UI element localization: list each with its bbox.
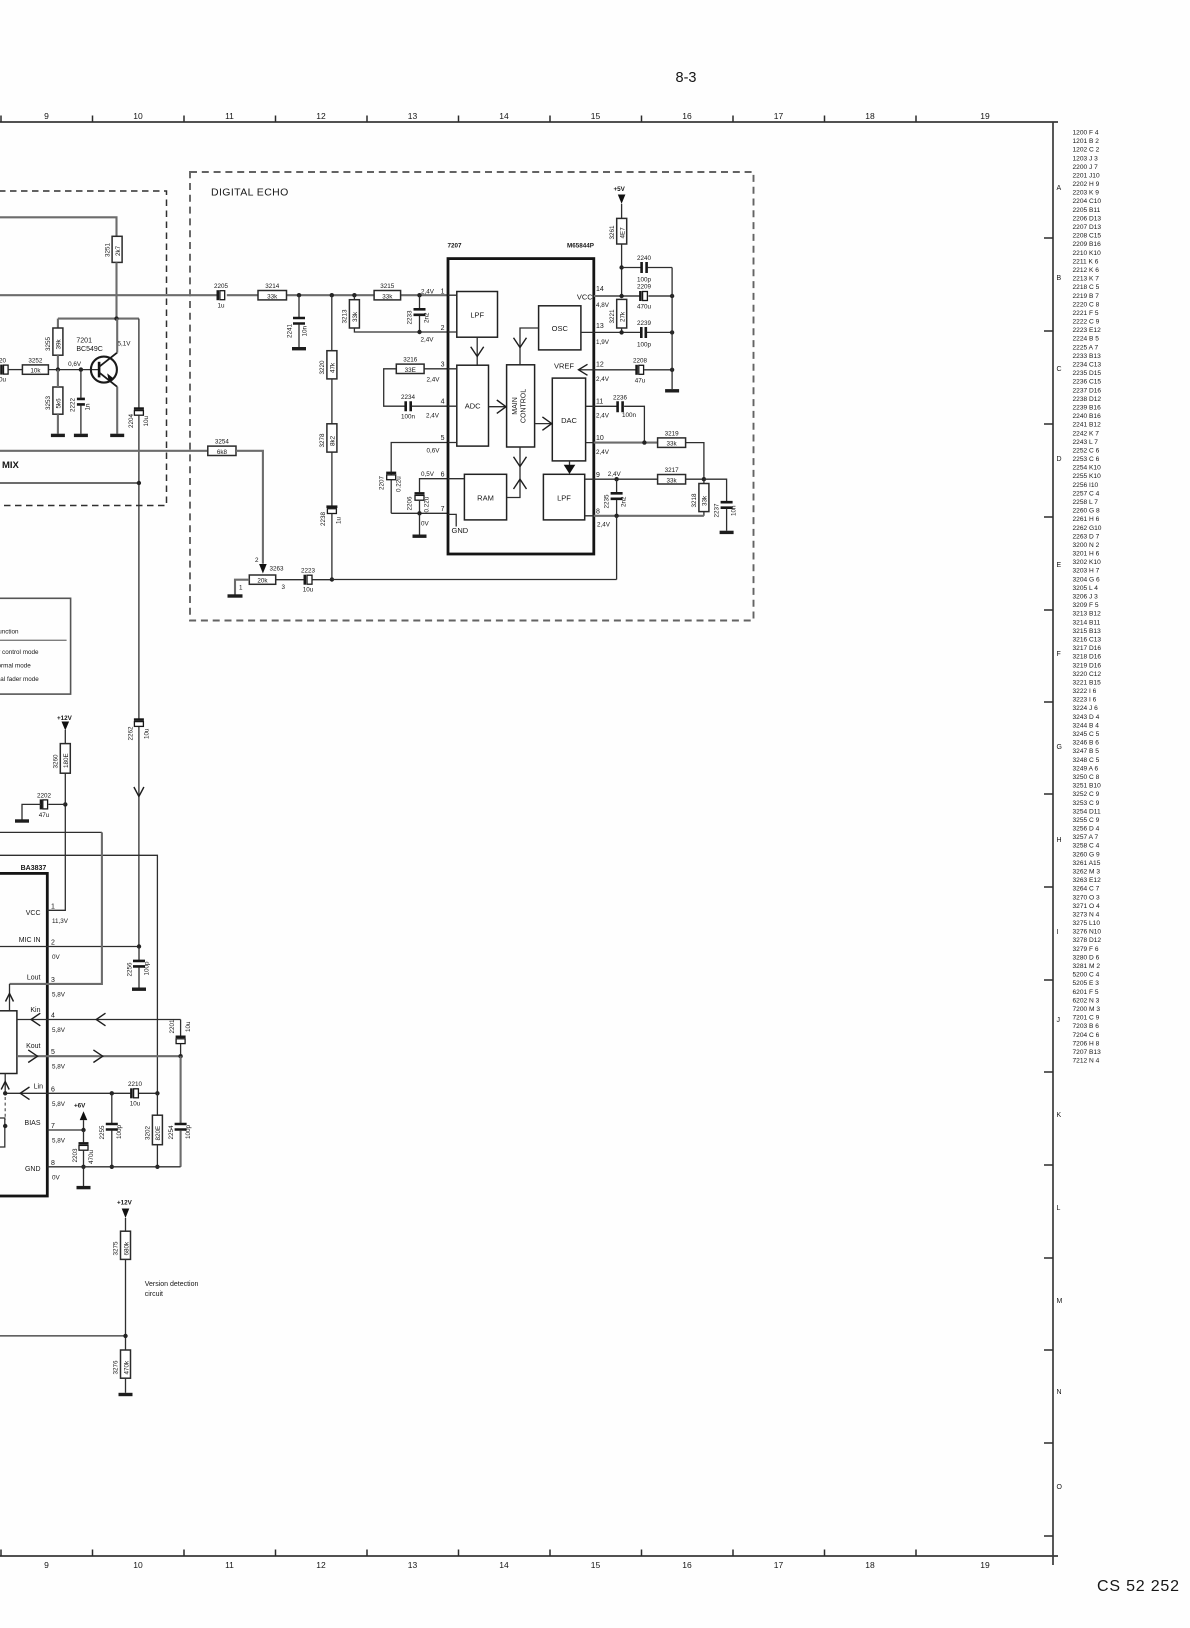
svg-text:OSC: OSC: [552, 324, 569, 333]
svg-text:3244 B 4: 3244 B 4: [1073, 722, 1100, 729]
svg-text:3: 3: [282, 584, 286, 591]
right ruler letters: [1057, 185, 1063, 1491]
svg-text:16: 16: [682, 1560, 692, 1570]
svg-text:1u: 1u: [336, 516, 343, 524]
component location list: [1073, 130, 1102, 1065]
svg-text:2210: 2210: [128, 1081, 143, 1088]
supply +5V: [614, 186, 626, 218]
svg-text:2,4V: 2,4V: [421, 336, 435, 343]
wire 3278 to 2238: [331, 452, 333, 506]
svg-text:+6V: +6V: [74, 1103, 86, 1110]
wire pin12: [594, 369, 672, 371]
svg-text:2234: 2234: [401, 394, 416, 401]
svg-text:9: 9: [44, 111, 49, 121]
resistor 3219 33k: [658, 430, 686, 447]
svg-text:2212 K 6: 2212 K 6: [1073, 267, 1100, 274]
svg-text:100p: 100p: [185, 1124, 192, 1139]
svg-text:Lin: Lin: [34, 1084, 43, 1091]
table mode box: [0, 598, 71, 694]
ground pot: [228, 594, 243, 597]
supply +12V (3260): [57, 715, 73, 731]
svg-text:2209: 2209: [637, 284, 652, 291]
svg-text:3260 G 9: 3260 G 9: [1073, 851, 1100, 858]
top ruler numbers: [44, 111, 990, 121]
svg-text:2k7: 2k7: [115, 245, 122, 256]
wire 3261 to pin14: [621, 244, 623, 296]
wire pin10: [594, 442, 658, 444]
svg-text:100p: 100p: [144, 961, 151, 976]
svg-text:5,8V: 5,8V: [52, 991, 66, 998]
resistor 3220 47k: [319, 351, 337, 379]
node junction 2255 gnd: [110, 1165, 114, 1169]
svg-text:3219 D16: 3219 D16: [1073, 662, 1102, 669]
capacitor 2202 47u: [22, 792, 65, 819]
svg-text:3218: 3218: [691, 493, 698, 508]
op-amp U7200 BA3837 (IC body): [0, 873, 47, 1196]
capacitor 2238 1u: [320, 507, 343, 580]
wire emitter to ground: [116, 387, 118, 434]
svg-text:3213: 3213: [342, 309, 349, 324]
dashed box left (mix section): [0, 191, 167, 506]
svg-text:function: function: [0, 629, 19, 636]
node junctions pin13: [619, 330, 623, 334]
svg-text:6: 6: [51, 1086, 55, 1093]
resistor 3275 680k: [113, 1231, 131, 1259]
arrow kout right inner: [28, 1050, 37, 1063]
svg-text:2237: 2237: [714, 503, 721, 518]
svg-text:2255: 2255: [99, 1125, 106, 1140]
svg-text:17: 17: [774, 1560, 784, 1570]
capacitor 2235 2n2: [604, 479, 628, 516]
svg-text:10: 10: [133, 111, 143, 121]
svg-text:0,6V: 0,6V: [427, 448, 441, 455]
svg-text:2218 C 5: 2218 C 5: [1073, 284, 1100, 291]
svg-text:10u: 10u: [130, 1101, 141, 1108]
capacitor 2237 10n: [704, 479, 738, 531]
svg-text:14: 14: [499, 1560, 509, 1570]
block aux (cut, left edge): [0, 1118, 5, 1147]
svg-text:3243 D 4: 3243 D 4: [1073, 714, 1100, 721]
ground 2241: [292, 347, 306, 350]
wire 3254 to pot wiper: [236, 451, 263, 564]
svg-text:2,4V: 2,4V: [426, 413, 440, 420]
resistor 3202 820E: [145, 1093, 163, 1167]
svg-text:10: 10: [596, 435, 604, 442]
svg-text:2233 B13: 2233 B13: [1073, 353, 1102, 360]
capacitor 2203 470u: [72, 1130, 95, 1167]
svg-text:3245 C 5: 3245 C 5: [1073, 731, 1100, 738]
wire base: [48, 369, 99, 371]
svg-text:180E: 180E: [63, 753, 70, 768]
svg-text:3: 3: [441, 362, 445, 369]
wire top feed: [0, 217, 117, 236]
svg-text:33k: 33k: [352, 311, 359, 322]
svg-text:2223: 2223: [301, 568, 316, 575]
node junction bias: [81, 1128, 85, 1132]
svg-text:8: 8: [51, 1160, 55, 1167]
wire echo return long: [332, 579, 617, 581]
svg-text:2207 D13: 2207 D13: [1073, 224, 1102, 231]
svg-text:2: 2: [441, 325, 445, 332]
svg-text:+12V: +12V: [117, 1199, 133, 1206]
wire 3220 chain: [331, 295, 333, 351]
svg-text:7207 B13: 7207 B13: [1073, 1049, 1102, 1056]
svg-text:3262 M 3: 3262 M 3: [1073, 869, 1101, 876]
svg-text:2258 L 7: 2258 L 7: [1073, 499, 1099, 506]
svg-text:2213 K 7: 2213 K 7: [1073, 276, 1100, 283]
svg-text:Version detection: Version detection: [145, 1281, 199, 1288]
svg-text:2219 B 7: 2219 B 7: [1073, 293, 1100, 300]
block volume (internal, cut): [0, 1011, 17, 1074]
wire dashed below lin: [4, 1097, 6, 1120]
wire 3217 to node: [686, 478, 704, 480]
svg-text:11: 11: [596, 399, 603, 406]
resistor 3251 2k7: [105, 236, 123, 262]
ground 2206: [413, 535, 427, 538]
wire kout pin5: [17, 1055, 181, 1057]
svg-text:16: 16: [682, 111, 692, 121]
capacitor 2255 100p: [99, 1093, 123, 1167]
svg-text:VREF: VREF: [554, 362, 574, 371]
svg-text:820E: 820E: [155, 1126, 162, 1141]
svg-text:47k: 47k: [330, 362, 337, 373]
svg-text:7207: 7207: [448, 243, 463, 250]
svg-text:3220 C12: 3220 C12: [1073, 671, 1102, 678]
block OSC: [539, 306, 581, 350]
svg-text:10u: 10u: [185, 1021, 192, 1032]
arrow OSC to MAIN CONTROL: [520, 328, 539, 364]
wire to ground pin7: [419, 513, 421, 534]
svg-text:3279 F 6: 3279 F 6: [1073, 946, 1099, 953]
svg-text:2252 C 6: 2252 C 6: [1073, 447, 1100, 454]
svg-text:4: 4: [441, 399, 445, 406]
svg-text:7203 B 6: 7203 B 6: [1073, 1023, 1100, 1030]
svg-text:2,4V: 2,4V: [597, 521, 611, 528]
svg-text:3213 B12: 3213 B12: [1073, 611, 1102, 618]
svg-text:8-3: 8-3: [676, 70, 697, 86]
wire lout pin3: [10, 832, 102, 984]
ground 2202: [15, 819, 29, 822]
svg-text:2204: 2204: [128, 413, 135, 428]
svg-text:BIAS: BIAS: [25, 1120, 41, 1127]
arrow kin left inner: [31, 1013, 40, 1026]
svg-text:Lout: Lout: [27, 974, 41, 981]
svg-text:vocal fader mode: vocal fader mode: [0, 676, 39, 683]
svg-text:2n2: 2n2: [424, 312, 431, 323]
svg-text:H: H: [1057, 837, 1062, 844]
svg-text:47u: 47u: [635, 377, 646, 384]
svg-text:3258 C 4: 3258 C 4: [1073, 843, 1100, 850]
dashed box DIGITAL ECHO: [190, 172, 754, 621]
node junction mic/mix: [137, 481, 141, 485]
svg-text:2240: 2240: [637, 255, 652, 262]
arrow volume out: [1, 1082, 9, 1090]
node junction kout: [178, 1054, 182, 1058]
svg-text:33E: 33E: [405, 367, 416, 374]
svg-text:13: 13: [596, 323, 604, 330]
svg-text:33k: 33k: [267, 293, 278, 300]
capacitor 2233 2n2: [407, 295, 431, 332]
svg-text:2236 C15: 2236 C15: [1073, 379, 1102, 386]
svg-text:2,4V: 2,4V: [421, 288, 435, 295]
wire pin stubs right: [581, 332, 594, 515]
arrow volume in: [6, 994, 14, 1002]
capacitor 2210 10u: [128, 1081, 143, 1108]
svg-text:4,8V: 4,8V: [596, 302, 610, 309]
wire volume to lin: [4, 1074, 6, 1094]
svg-text:2241 B12: 2241 B12: [1073, 422, 1102, 429]
capacitor 2208 47u: [633, 357, 648, 384]
svg-text:3254 D11: 3254 D11: [1073, 808, 1101, 815]
node junction pin12: [670, 368, 674, 372]
node base junctions: [56, 367, 60, 371]
svg-text:2: 2: [51, 940, 55, 947]
wire lin feed top: [0, 855, 157, 1093]
node junction 2240: [619, 265, 623, 269]
svg-text:7201: 7201: [76, 338, 92, 345]
wire pin14 VCC: [594, 295, 672, 297]
arrow MAIN CONTROL to RAM (bidirectional): [507, 447, 520, 498]
resistor 3255 39k: [45, 328, 63, 355]
svg-text:O: O: [1057, 1484, 1063, 1491]
svg-text:3276 N10: 3276 N10: [1073, 929, 1102, 936]
wire pot pin3: [276, 579, 304, 581]
svg-text:3216: 3216: [403, 357, 418, 364]
svg-text:+5V: +5V: [614, 186, 626, 193]
svg-text:0.22u: 0.22u: [396, 476, 403, 492]
svg-text:2n2: 2n2: [621, 496, 628, 507]
svg-text:6k8: 6k8: [217, 449, 228, 456]
wire pin7 row: [391, 512, 448, 514]
right ruler ticks: [1044, 238, 1053, 1536]
block LPF top: [457, 292, 498, 338]
svg-text:5205 E 3: 5205 E 3: [1073, 980, 1100, 987]
block DAC: [552, 378, 585, 461]
svg-text:A: A: [1057, 185, 1062, 192]
svg-text:3256 D 4: 3256 D 4: [1073, 826, 1100, 833]
resistor 3278 8k2: [319, 424, 337, 452]
svg-text:2205: 2205: [214, 283, 229, 290]
resistor 3218 33k: [691, 479, 709, 516]
svg-text:5,1V: 5,1V: [118, 341, 132, 348]
top ruler ticks: [1, 116, 916, 123]
svg-text:3252: 3252: [28, 358, 43, 365]
svg-text:2262: 2262: [128, 726, 135, 741]
supply +6V: [74, 1103, 87, 1131]
svg-text:2205 B11: 2205 B11: [1073, 207, 1101, 214]
wire vcc pin1: [47, 804, 65, 910]
svg-text:D: D: [1057, 456, 1062, 463]
svg-text:3217: 3217: [665, 467, 680, 474]
svg-text:6: 6: [441, 472, 445, 479]
svg-text:2255 K10: 2255 K10: [1073, 473, 1102, 480]
node junction 2202: [63, 802, 67, 806]
svg-text:7: 7: [51, 1123, 55, 1130]
svg-text:10k: 10k: [30, 368, 41, 375]
svg-text:2209 B16: 2209 B16: [1073, 241, 1102, 248]
capacitor 2236 100n: [613, 395, 637, 419]
capacitor 2206 0.22u: [407, 493, 431, 512]
svg-text:C: C: [1057, 366, 1062, 373]
svg-text:2,4V: 2,4V: [608, 471, 622, 478]
svg-text:2243 L 7: 2243 L 7: [1073, 439, 1099, 446]
svg-text:0,5V: 0,5V: [421, 471, 435, 478]
resistor 3254 6k8: [208, 439, 236, 456]
svg-text:2211 K 6: 2211 K 6: [1073, 258, 1099, 265]
capacitor 2207 0.22u: [379, 473, 403, 492]
capacitor 2262 10u: [128, 720, 151, 741]
wire cap to 3252: [8, 369, 22, 371]
node junction collector: [114, 316, 118, 320]
svg-text:3263: 3263: [270, 566, 285, 573]
resistor 3213 33k: [342, 295, 449, 332]
svg-text:3253: 3253: [45, 395, 52, 410]
block RAM: [464, 474, 506, 520]
wire collector: [116, 319, 118, 353]
svg-text:3221 B15: 3221 B15: [1073, 680, 1102, 687]
svg-text:0V: 0V: [52, 954, 61, 961]
node junction mic: [137, 944, 141, 948]
resistor 3217 33k: [658, 467, 686, 484]
svg-text:12: 12: [316, 111, 326, 121]
svg-text:2224 B 5: 2224 B 5: [1073, 336, 1100, 343]
svg-text:2210 K10: 2210 K10: [1073, 250, 1102, 257]
svg-text:normal mode: normal mode: [0, 662, 31, 669]
svg-text:3220: 3220: [319, 360, 326, 375]
node junctions main wire: [297, 293, 301, 297]
svg-text:8: 8: [596, 509, 600, 516]
svg-text:4E7: 4E7: [620, 227, 627, 239]
svg-text:470u: 470u: [637, 303, 652, 310]
svg-text:3224 J 6: 3224 J 6: [1073, 705, 1099, 712]
svg-text:1201 B 2: 1201 B 2: [1073, 138, 1100, 145]
bottom ruler line: [0, 1555, 1058, 1557]
svg-text:3: 3: [51, 977, 55, 984]
svg-text:3260: 3260: [52, 754, 59, 769]
svg-text:CS 52 252: CS 52 252: [1097, 1578, 1180, 1595]
ground emitter: [110, 434, 124, 437]
wire 3251 to collector node: [115, 262, 117, 318]
svg-text:100p: 100p: [637, 277, 652, 284]
wire 3255 top: [57, 319, 59, 328]
svg-text:2239 B16: 2239 B16: [1073, 405, 1102, 412]
wire 3216 loop to 2234: [384, 369, 405, 406]
node junction pin2: [417, 330, 421, 334]
svg-text:680k: 680k: [123, 1241, 130, 1256]
svg-text:2263 D 7: 2263 D 7: [1073, 533, 1100, 540]
svg-text:Kout: Kout: [26, 1043, 40, 1050]
svg-text:3205 L 4: 3205 L 4: [1073, 585, 1099, 592]
svg-text:2254 K10: 2254 K10: [1073, 465, 1102, 472]
wire mic pin2: [0, 946, 139, 948]
svg-text:2238: 2238: [320, 511, 327, 526]
svg-text:BA3837: BA3837: [21, 865, 47, 872]
svg-text:9: 9: [44, 1560, 49, 1570]
svg-text:3219: 3219: [665, 430, 680, 437]
svg-text:3271 O 4: 3271 O 4: [1073, 903, 1100, 910]
svg-text:2235 D15: 2235 D15: [1073, 370, 1102, 377]
wire pin6 loop: [420, 479, 449, 493]
svg-text:2206: 2206: [407, 496, 414, 511]
svg-text:2237 D16: 2237 D16: [1073, 387, 1102, 394]
svg-text:3203 H 7: 3203 H 7: [1073, 568, 1100, 575]
resistor 3253 5k6: [45, 387, 63, 414]
svg-text:10u: 10u: [143, 415, 150, 426]
svg-text:2256: 2256: [127, 962, 134, 977]
resistor 3261 4E7: [609, 218, 627, 244]
svg-text:3255: 3255: [45, 336, 52, 351]
svg-text:3200 N 2: 3200 N 2: [1073, 542, 1100, 549]
arrow mic line down: [134, 787, 144, 797]
arrow kin left outer: [96, 1013, 105, 1026]
svg-text:RAM: RAM: [477, 494, 494, 503]
svg-text:3248 C 5: 3248 C 5: [1073, 757, 1100, 764]
svg-text:I: I: [1057, 929, 1059, 936]
svg-text:33k: 33k: [667, 441, 678, 448]
block ADC: [457, 365, 489, 446]
node junction 3218 top: [702, 477, 706, 481]
svg-text:18: 18: [865, 1560, 875, 1570]
wire 3255 to base: [57, 355, 59, 369]
svg-text:20k: 20k: [257, 578, 268, 585]
svg-text:13: 13: [408, 1560, 418, 1570]
svg-text:3264 C 7: 3264 C 7: [1073, 886, 1100, 893]
svg-text:3255 C 9: 3255 C 9: [1073, 817, 1100, 824]
svg-text:1: 1: [51, 903, 55, 910]
ground bus: [665, 389, 679, 392]
svg-text:3273 N 4: 3273 N 4: [1073, 912, 1100, 919]
wire pot pin1 to ground: [235, 580, 249, 595]
svg-text:5200 C 4: 5200 C 4: [1073, 972, 1100, 979]
svg-text:2204 C10: 2204 C10: [1073, 198, 1102, 205]
svg-text:2206 D13: 2206 D13: [1073, 215, 1102, 222]
svg-text:2262 G10: 2262 G10: [1073, 525, 1102, 532]
svg-text:17: 17: [774, 111, 784, 121]
svg-text:2,4V: 2,4V: [596, 412, 610, 419]
wire 2223 to junction: [313, 579, 332, 581]
svg-text:7200 M 3: 7200 M 3: [1073, 1006, 1101, 1013]
wire pin8 node down to echo return: [616, 516, 618, 580]
arrow kout right outer: [93, 1050, 102, 1063]
svg-text:1200 F 4: 1200 F 4: [1073, 130, 1099, 137]
svg-text:3221: 3221: [609, 309, 616, 324]
svg-text:5,8V: 5,8V: [52, 1027, 66, 1034]
wire 2203 to ground: [83, 1167, 85, 1186]
svg-text:K: K: [1057, 1112, 1062, 1119]
resistor 3215 33k: [374, 283, 401, 300]
svg-text:7204 C 6: 7204 C 6: [1073, 1032, 1100, 1039]
svg-text:4: 4: [51, 1013, 55, 1020]
svg-text:100n: 100n: [622, 412, 637, 419]
wire mic line long vertical: [138, 415, 140, 946]
svg-text:5: 5: [441, 435, 445, 442]
svg-text:B: B: [1057, 275, 1062, 282]
wire main signal: [0, 294, 448, 296]
arrow lin left: [20, 1087, 29, 1100]
wire bias pin7: [47, 1129, 83, 1131]
svg-text:2207: 2207: [379, 475, 386, 490]
svg-text:33k: 33k: [702, 495, 709, 506]
ground 3276: [119, 1393, 133, 1396]
svg-text:3206 J 3: 3206 J 3: [1073, 594, 1099, 601]
svg-text:2222: 2222: [70, 397, 77, 412]
svg-text:6202 N 3: 6202 N 3: [1073, 997, 1100, 1004]
svg-text:0.22u: 0.22u: [424, 496, 431, 512]
svg-text:2223 E12: 2223 E12: [1073, 327, 1102, 334]
capacitor 2256 100p: [127, 947, 151, 988]
svg-text:L: L: [1057, 1205, 1061, 1212]
svg-text:3275 L10: 3275 L10: [1073, 920, 1101, 927]
